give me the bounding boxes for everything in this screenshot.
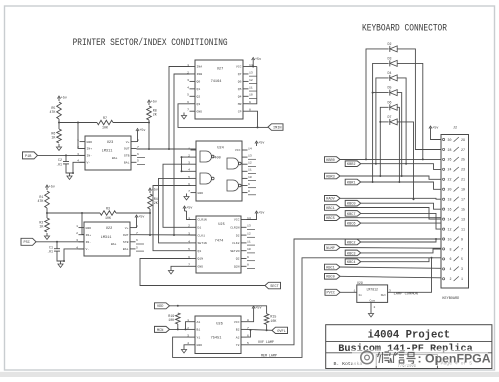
wire KBR1 to J2-20	[361, 182, 441, 189]
title block	[326, 325, 492, 369]
svg-text:4: 4	[188, 239, 190, 243]
wire KBR3 to J2-22	[340, 176, 441, 179]
svg-text:KBC1: KBC1	[326, 266, 335, 270]
svg-text:18: 18	[448, 198, 452, 202]
IC U26 75451	[187, 316, 249, 354]
svg-text:10K: 10K	[168, 318, 174, 322]
svg-text:VCC: VCC	[234, 218, 240, 222]
wire D6 cathode drop	[397, 107, 400, 183]
svg-text:R7: R7	[103, 116, 107, 120]
svg-text:3: 3	[76, 238, 78, 242]
svg-text:KBR0: KBR0	[326, 159, 335, 163]
svg-text:23: 23	[461, 168, 465, 172]
svg-text:OVFL: OVFL	[277, 330, 286, 334]
svg-text:D6: D6	[388, 100, 392, 104]
svg-text:Out: Out	[381, 294, 387, 297]
svg-text:6: 6	[137, 152, 139, 156]
svg-text:PRINTER SECTOR/INDEX CONDITION: PRINTER SECTOR/INDEX CONDITIONING	[73, 37, 228, 48]
svg-text:LM311: LM311	[102, 150, 113, 154]
svg-text:16: 16	[448, 207, 452, 211]
svg-text:21: 21	[461, 178, 465, 182]
svg-text:V-: V-	[87, 161, 91, 165]
port SECT	[265, 282, 281, 289]
svg-text:A1: A1	[197, 320, 201, 324]
svg-text:OUT: OUT	[124, 147, 130, 151]
power +5V (R4 top)	[148, 188, 158, 193]
svg-text:MEM LAMP: MEM LAMP	[261, 353, 277, 357]
svg-text:1: 1	[353, 290, 355, 293]
svg-text:In: In	[358, 294, 362, 297]
svg-text:4: 4	[76, 245, 78, 249]
svg-text:10: 10	[448, 237, 452, 241]
svg-text:C2: C2	[58, 158, 62, 162]
svg-text:+5v: +5v	[186, 207, 192, 211]
resistor R3	[100, 207, 116, 221]
svg-text:KEYBOARD: KEYBOARD	[442, 297, 459, 301]
power +5V (J2 pin30)	[429, 126, 439, 131]
IC U25 7474	[188, 216, 255, 273]
svg-text:D5: D5	[388, 86, 392, 90]
svg-text:11: 11	[249, 85, 253, 89]
power +5V (U25 VCC)	[255, 211, 265, 216]
svg-text:11: 11	[461, 227, 465, 231]
svg-text:U24: U24	[217, 147, 223, 151]
port KBC2	[345, 239, 361, 245]
wire LAMP COMMON net	[388, 258, 432, 293]
svg-text:+5v: +5v	[258, 212, 264, 216]
ground (U25 GND)	[168, 268, 173, 275]
svg-text:CLK1: CLK1	[198, 233, 206, 237]
svg-text:2: 2	[188, 224, 190, 228]
svg-text:LM7812: LM7812	[366, 287, 378, 291]
IC U23 LM311	[77, 136, 145, 170]
wire U25 CLR1N riser fix	[185, 210, 187, 212]
wire D7 cathode drop	[397, 122, 414, 200]
svg-text:5: 5	[136, 245, 138, 249]
wire VDD rail	[170, 305, 267, 314]
svg-text:STB: STB	[123, 240, 129, 244]
svg-text:29: 29	[461, 138, 465, 142]
svg-text:i4004 Project: i4004 Project	[367, 330, 450, 342]
wire D5 cathode drop	[397, 93, 402, 177]
svg-text:13: 13	[461, 217, 465, 221]
wire D3/D5 anode bus	[372, 63, 389, 183]
svg-text:Q2N: Q2N	[234, 265, 240, 269]
port VDD	[155, 303, 170, 309]
svg-text:Q4: Q4	[238, 95, 242, 99]
power +5V (U23 V+)	[136, 129, 146, 134]
svg-text:P1B: P1B	[25, 155, 31, 159]
svg-text:VCC: VCC	[234, 320, 240, 324]
svg-text:+5v: +5v	[258, 142, 264, 146]
svg-text:U23: U23	[107, 141, 113, 145]
svg-text:KBC0: KBC0	[326, 276, 335, 280]
ground (below R2)	[44, 233, 49, 240]
port KBR1	[345, 179, 361, 185]
svg-text:OVF LAMP: OVF LAMP	[258, 340, 274, 344]
wire feedback rail lower	[47, 212, 100, 214]
wire U24 pin2-4 tie	[181, 156, 191, 172]
svg-text:9: 9	[461, 237, 463, 241]
svg-text:D2: D2	[236, 233, 240, 237]
svg-text:9: 9	[248, 182, 250, 186]
diode D4	[388, 71, 398, 81]
wire R15 bottom to OVFL wire	[266, 325, 268, 331]
wire U22 V+ up	[136, 220, 137, 228]
svg-text:2: 2	[187, 326, 189, 330]
wire D2 anode bus	[365, 49, 389, 160]
port KBR3	[325, 173, 341, 179]
gate U24 nand 1	[200, 151, 214, 162]
wire R8 bottom to node	[148, 120, 150, 150]
wire OVF LAMP net	[247, 238, 442, 345]
ground (below C2)	[67, 173, 72, 180]
svg-text:Q5: Q5	[238, 87, 242, 91]
svg-text:Q0: Q0	[197, 80, 201, 84]
wire U24 pin3 to U25 D1	[163, 164, 191, 227]
svg-text:10: 10	[247, 247, 251, 251]
svg-text:CLK2: CLK2	[232, 241, 240, 245]
wire RADV to J2-18	[340, 197, 441, 200]
wire NLMP to J2-8	[340, 247, 441, 250]
svg-text:3: 3	[187, 78, 189, 82]
wire D2 cathode to J2-28	[397, 49, 441, 150]
svg-text:MR: MR	[238, 102, 242, 106]
svg-text:BAL: BAL	[112, 157, 118, 160]
svg-text:KBC2: KBC2	[347, 241, 356, 245]
svg-text:B2: B2	[236, 328, 240, 332]
svg-text:SET2N: SET2N	[230, 249, 239, 253]
svg-text:Q6: Q6	[238, 80, 242, 84]
svg-text:CP: CP	[238, 109, 242, 113]
svg-text:27: 27	[461, 148, 465, 152]
svg-text:9: 9	[247, 255, 249, 259]
wire U25 CLR1N up	[187, 211, 191, 220]
svg-text:8: 8	[247, 263, 249, 267]
port KBC4	[345, 259, 361, 265]
wire D4 cathode drop	[397, 78, 407, 165]
svg-text:13: 13	[249, 70, 253, 74]
svg-text:V+: V+	[125, 226, 129, 230]
capacitor C2	[56, 155, 69, 170]
svg-text:Q1N: Q1N	[198, 257, 204, 261]
svg-text:.01: .01	[47, 250, 53, 254]
port KBR2	[345, 161, 361, 167]
diode D6	[388, 100, 398, 110]
svg-text:12: 12	[248, 161, 252, 165]
wire R19 bottom	[177, 324, 179, 329]
svg-text:7: 7	[188, 189, 190, 193]
connector J2	[441, 127, 469, 289]
svg-text:D3: D3	[388, 56, 392, 60]
svg-text:LM311: LM311	[101, 236, 112, 240]
svg-text:10: 10	[249, 93, 253, 97]
svg-text:Y2: Y2	[236, 343, 240, 347]
port IMIN	[268, 124, 283, 131]
svg-text:+5v: +5v	[255, 307, 261, 311]
port OVFL	[272, 327, 288, 334]
svg-text:BAL: BAL	[111, 243, 117, 246]
svg-text:KBC3: KBC3	[347, 252, 356, 256]
svg-text:22: 22	[448, 178, 452, 182]
wire U23 V- down	[72, 162, 85, 174]
svg-text:Y1: Y1	[197, 335, 201, 339]
svg-text:10K: 10K	[105, 216, 111, 220]
svg-text:75451: 75451	[211, 337, 222, 341]
svg-text:VCC: VCC	[236, 65, 242, 69]
svg-text:KBR1: KBR1	[347, 181, 356, 185]
wire R1-R2 junction	[46, 208, 48, 218]
port NLMP	[325, 245, 341, 251]
wire KBC6 to J2	[361, 222, 441, 224]
svg-text:RADV: RADV	[326, 198, 335, 202]
svg-text:10: 10	[248, 175, 252, 179]
watermark text	[378, 352, 416, 364]
svg-text:5: 5	[187, 93, 189, 97]
svg-text:14: 14	[248, 146, 252, 150]
svg-text:.01: .01	[56, 163, 62, 167]
svg-text:GND: GND	[86, 226, 92, 230]
wire feedback rail upper	[59, 122, 97, 124]
svg-text:Q7: Q7	[238, 72, 242, 76]
port KBC7	[345, 211, 361, 217]
svg-text:24: 24	[448, 168, 452, 172]
wire R5-R6 junction	[58, 119, 60, 129]
svg-text:Q2: Q2	[236, 257, 240, 261]
wire KBC5 to J2	[340, 217, 441, 219]
svg-text:BAL: BAL	[124, 161, 130, 165]
svg-text:D4: D4	[388, 71, 392, 75]
svg-text:12: 12	[247, 232, 251, 236]
power +5V (U26 VCC)	[252, 306, 262, 311]
port KBC0	[345, 200, 361, 206]
wire MCN to B1/A1	[170, 328, 190, 330]
wire D5 anode stub	[373, 92, 389, 94]
ground (regulator ground)	[368, 311, 373, 318]
svg-text:2: 2	[77, 145, 79, 149]
IC U29 LM7812 regulator	[353, 281, 391, 309]
svg-text:1: 1	[76, 224, 78, 228]
wire MEM LAMP net	[173, 257, 441, 358]
svg-text:19: 19	[461, 188, 465, 192]
svg-text:SECT: SECT	[270, 285, 279, 289]
svg-text:2: 2	[374, 306, 376, 309]
port PSC	[21, 238, 36, 245]
wire KBR2 to J2-24	[361, 164, 441, 170]
watermark logo	[361, 351, 373, 363]
svg-text:IN+: IN+	[86, 233, 92, 237]
svg-text:STB: STB	[124, 154, 130, 158]
ground (below C1)	[58, 261, 63, 268]
svg-text:KBC6: KBC6	[347, 223, 356, 227]
svg-text:IN-: IN-	[87, 154, 93, 158]
wire B2-A2 tie	[247, 329, 251, 337]
svg-text:VDD: VDD	[157, 305, 163, 309]
wire KBC0b to J2-2	[340, 276, 441, 278]
resistor R7	[97, 116, 113, 130]
wire U27 VCC/MR rail	[249, 66, 257, 68]
power +5V (R5 top)	[57, 96, 67, 101]
svg-text:GND: GND	[198, 265, 204, 269]
svg-text:U29: U29	[357, 281, 363, 285]
power +5V (U22 V+)	[135, 215, 145, 220]
port RADV	[325, 196, 341, 202]
wire C2/V- join	[66, 170, 73, 173]
svg-text:D7: D7	[388, 115, 392, 119]
wire R7 to R8	[113, 122, 149, 124]
IC U24 7400	[188, 141, 256, 201]
svg-text:7474: 7474	[215, 240, 224, 244]
wire regulator Com lead	[370, 302, 372, 310]
svg-text:Com: Com	[369, 299, 375, 302]
svg-text:13: 13	[247, 224, 251, 228]
svg-text:+5v: +5v	[61, 97, 67, 101]
wire U27 MR to +5v	[249, 67, 257, 104]
bottom gray strip	[0, 372, 499, 377]
svg-text:PSC: PSC	[24, 241, 30, 245]
svg-text:B1: B1	[197, 328, 201, 332]
svg-text:U25: U25	[218, 223, 224, 227]
resistor R2	[39, 218, 49, 232]
svg-text:NLMP: NLMP	[326, 247, 335, 251]
svg-text:4: 4	[77, 159, 79, 163]
svg-text:1: 1	[77, 138, 79, 142]
wire D7 anode stub	[380, 121, 388, 123]
svg-text:V-: V-	[86, 247, 90, 251]
wire U26 B2 to OVFL	[247, 329, 273, 331]
svg-text:D1: D1	[198, 226, 202, 230]
svg-text:IN-: IN-	[86, 240, 92, 244]
port P1B	[23, 152, 38, 159]
svg-text:+5v: +5v	[49, 186, 55, 190]
ground (U24 GND)	[184, 194, 189, 201]
svg-text:8: 8	[450, 247, 452, 251]
svg-text:26: 26	[448, 158, 452, 162]
svg-text:7: 7	[187, 108, 189, 112]
svg-text:15: 15	[461, 207, 465, 211]
wire R3 to R4	[116, 212, 150, 214]
svg-text:VCC: VCC	[235, 148, 241, 152]
wire node to IN+ U23	[77, 122, 85, 149]
svg-text:: OpenFPGA: : OpenFPGA	[418, 352, 491, 366]
wire U26 VCC up	[247, 311, 254, 322]
wire U24 pin6 to U25 Q1	[153, 186, 191, 251]
svg-text:1K: 1K	[39, 225, 43, 229]
svg-text:1K: 1K	[51, 136, 55, 140]
svg-text:U27: U27	[217, 67, 223, 71]
svg-text:IMIN: IMIN	[273, 126, 282, 130]
svg-text:6: 6	[136, 238, 138, 242]
svg-text:SET1N: SET1N	[198, 241, 207, 245]
svg-text:3: 3	[77, 152, 79, 156]
power +5V (U27 VCC)	[252, 58, 262, 63]
svg-text:13: 13	[248, 154, 252, 158]
svg-text:2: 2	[450, 277, 452, 281]
wire U27 INB from node	[174, 74, 190, 235]
svg-text:KBC7: KBC7	[347, 213, 356, 217]
svg-text:+5v: +5v	[139, 129, 145, 133]
port KBC1b	[325, 264, 341, 270]
wire U25 VCC stub	[247, 216, 257, 220]
resistor R19	[168, 313, 180, 324]
svg-text:10K: 10K	[270, 319, 276, 323]
wire J2 +5v to pin30	[431, 131, 442, 140]
svg-text:47K: 47K	[49, 110, 55, 114]
svg-text:Q1: Q1	[198, 249, 202, 253]
svg-text:8: 8	[248, 189, 250, 193]
svg-text:28: 28	[448, 148, 452, 152]
svg-text:LAMP COMMON: LAMP COMMON	[394, 293, 418, 297]
wire node to IN+ U22	[81, 212, 84, 235]
svg-text:1: 1	[461, 277, 463, 281]
svg-text:BAL: BAL	[123, 247, 129, 251]
wire U22 OUT to U25 CLK1	[136, 234, 197, 236]
svg-text:Q1: Q1	[197, 87, 201, 91]
svg-text:2: 2	[76, 231, 78, 235]
wire A1 tie	[186, 322, 190, 330]
ground (U27 GND)	[181, 113, 186, 120]
resistor R1	[37, 191, 49, 208]
svg-text:KBC4: KBC4	[347, 261, 356, 265]
ground (U26 GND)	[181, 347, 186, 354]
svg-text:+5v: +5v	[255, 58, 261, 62]
svg-text:7: 7	[461, 247, 463, 251]
wire D4 anode bus	[375, 78, 389, 165]
svg-text:1: 1	[187, 318, 189, 322]
svg-text:GND: GND	[197, 109, 203, 113]
svg-text:A2: A2	[236, 335, 240, 339]
svg-text:6: 6	[450, 257, 452, 261]
svg-text:C1: C1	[49, 245, 53, 249]
svg-text:7: 7	[137, 145, 139, 149]
svg-text:30: 30	[448, 138, 452, 142]
wire U27 VCC riser	[252, 63, 254, 67]
svg-text:12: 12	[249, 78, 253, 82]
svg-text:74164: 74164	[211, 80, 222, 84]
wire U26 GND stub	[184, 345, 190, 347]
svg-text:GND: GND	[87, 140, 93, 144]
svg-text:2K: 2K	[153, 113, 157, 117]
svg-text:KBC0: KBC0	[347, 203, 356, 207]
svg-text:INB: INB	[197, 72, 203, 76]
svg-text:U22: U22	[106, 227, 112, 231]
port KBC3	[345, 250, 361, 256]
svg-text:CLR2N: CLR2N	[230, 226, 239, 230]
resistor R6	[51, 129, 61, 143]
wire KBC3 to J2-8	[361, 249, 441, 253]
svg-text:11: 11	[248, 168, 252, 172]
svg-text:Q3: Q3	[197, 102, 201, 106]
svg-text:12: 12	[448, 227, 452, 231]
svg-text:MCN: MCN	[157, 329, 163, 333]
svg-text:+5v: +5v	[151, 101, 157, 105]
svg-text:KBC5: KBC5	[326, 217, 335, 221]
wire KBC7 to J2-12	[361, 213, 441, 229]
svg-text:KEYBOARD CONNECTOR: KEYBOARD CONNECTOR	[362, 22, 447, 33]
wire KBC1 to J2-14	[340, 208, 441, 220]
svg-text:10K: 10K	[102, 126, 108, 130]
IC U27 74164	[187, 60, 257, 119]
svg-text:20: 20	[448, 188, 452, 192]
svg-text:Q2: Q2	[197, 95, 201, 99]
svg-text:IN+: IN+	[87, 147, 93, 151]
wire U27 Q3 loop to CP	[178, 104, 259, 129]
svg-text:3: 3	[461, 267, 463, 271]
diode D5	[388, 86, 398, 96]
svg-text:GND: GND	[197, 343, 203, 347]
svg-text:14: 14	[448, 217, 452, 221]
power +5V (R8 top)	[147, 100, 157, 105]
